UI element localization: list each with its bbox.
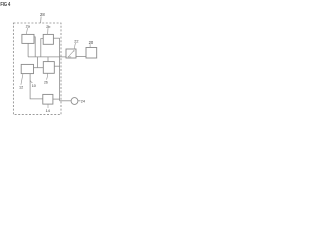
box B2 bbox=[43, 34, 53, 44]
svg-text:24: 24 bbox=[81, 99, 85, 103]
box B5 bbox=[43, 94, 53, 104]
svg-text:22: 22 bbox=[74, 40, 78, 44]
wire B1 bottom drop bbox=[27, 43, 29, 57]
terminal stub bbox=[78, 100, 81, 102]
wire B5 right to rail bbox=[53, 98, 60, 100]
svg-text:2a: 2a bbox=[26, 25, 31, 29]
leader 2b bbox=[47, 28, 49, 34]
wire B1 right to bus bbox=[34, 37, 35, 57]
label 10 at rail bbox=[30, 80, 32, 83]
leader 2a bbox=[26, 28, 27, 34]
box B1 bbox=[22, 34, 34, 43]
leader 12 under B3 bbox=[21, 74, 23, 85]
svg-text:14: 14 bbox=[46, 109, 50, 113]
wire B2 right to rail bbox=[53, 37, 59, 39]
svg-text:12: 12 bbox=[19, 85, 23, 89]
switch pivot dot bbox=[73, 50, 74, 51]
switch lever bbox=[68, 51, 74, 57]
svg-text:10: 10 bbox=[32, 84, 36, 88]
svg-text:2b: 2b bbox=[46, 25, 50, 29]
rail along border bbox=[59, 38, 61, 101]
wire bus drop to B3-B4 wire bbox=[37, 57, 39, 68]
wire B3 bottom rail to B5 bbox=[30, 74, 43, 99]
svg-text:20: 20 bbox=[89, 40, 94, 45]
svg-text:28: 28 bbox=[40, 12, 45, 17]
box 20 bbox=[86, 48, 97, 59]
wire rail to terminal circle bbox=[60, 100, 72, 102]
wire switch to box 20 bbox=[76, 56, 86, 58]
wire B3 to B4 bbox=[34, 67, 44, 69]
svg-text:FIG 4: FIG 4 bbox=[0, 1, 10, 8]
wire B4 top riser bbox=[47, 57, 49, 62]
leader 22 curved bbox=[74, 43, 77, 49]
box B4 bbox=[43, 62, 54, 74]
svg-text:26: 26 bbox=[44, 81, 48, 85]
switch box 22 bbox=[66, 49, 76, 58]
leader 20 bbox=[89, 44, 91, 47]
box B3 bbox=[21, 64, 33, 73]
wire riser to B2 left bbox=[41, 39, 43, 57]
wire main bus bbox=[28, 56, 66, 58]
leader 26 under B4 bbox=[47, 73, 48, 79]
wire B4 right to rail bbox=[54, 65, 59, 67]
terminal circle bbox=[71, 98, 78, 105]
leader for 28 bbox=[40, 17, 43, 24]
leader 14 under B5 bbox=[47, 104, 49, 108]
dashed enclosure 28 bbox=[13, 23, 61, 115]
switch contact stub bbox=[68, 56, 71, 58]
